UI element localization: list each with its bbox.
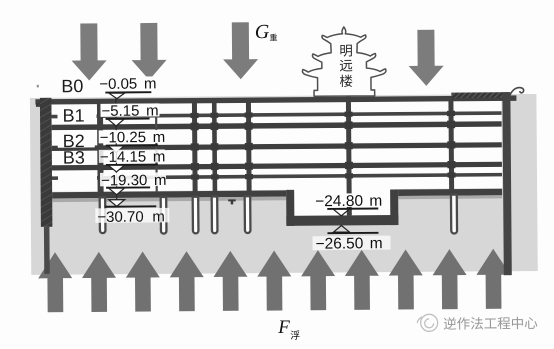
elevation -30.70 <box>109 200 125 207</box>
svg-text:−24.80 m: −24.80 m <box>315 193 382 211</box>
base slab left <box>52 190 286 198</box>
pit step wall left <box>286 190 294 226</box>
pit step wall right <box>390 190 398 226</box>
svg-text:−14.15 m: −14.15 m <box>100 148 166 166</box>
slab edge curl <box>509 88 524 99</box>
left wall toe <box>44 227 50 274</box>
pile 5 <box>245 196 251 233</box>
right diaphragm wall <box>502 92 511 275</box>
deep pit interior <box>294 188 390 216</box>
pile 1 <box>100 197 106 233</box>
load arrow 3 <box>223 22 258 79</box>
pile 4 <box>212 196 218 233</box>
column 5 under tower <box>346 87 352 215</box>
svg-text:B1: B1 <box>62 106 84 126</box>
base slab right lower tone <box>398 195 502 199</box>
marker on base slab <box>228 199 236 204</box>
svg-text:B0: B0 <box>61 76 83 96</box>
elevation -10.25 <box>99 130 165 144</box>
svg-text:−10.25 m: −10.25 m <box>100 129 166 147</box>
label B1 box <box>57 106 94 124</box>
slab B2 <box>52 142 502 151</box>
wall stub strut 1 <box>52 115 58 119</box>
strut level 2 <box>97 173 502 180</box>
load arrow 1 <box>71 23 106 80</box>
column 6 <box>448 100 454 190</box>
pile 6 <box>451 195 457 234</box>
level leader line <box>115 92 118 202</box>
elevation -5.15 <box>100 103 159 116</box>
svg-text:B3: B3 <box>63 148 85 168</box>
slab B1 <box>52 121 502 130</box>
basement excavation interior <box>51 100 502 192</box>
column 3 <box>212 101 217 191</box>
svg-text:远: 远 <box>339 58 353 73</box>
wall stub strut 2 <box>52 176 58 180</box>
label B2 box <box>58 132 95 147</box>
svg-text:F: F <box>277 317 290 338</box>
load arrow 4 <box>408 30 443 86</box>
pagoda tower outline <box>302 27 386 97</box>
elevation -26.50 <box>333 225 349 232</box>
pile 3 <box>193 197 199 234</box>
elevation -19.30 <box>100 172 166 186</box>
base slab left lower tone <box>52 197 286 202</box>
thin column line <box>155 102 158 192</box>
svg-text:−0.05 m: −0.05 m <box>99 75 156 92</box>
elevation -0.05 <box>98 76 158 89</box>
svg-text:明: 明 <box>339 43 353 58</box>
label B3 box <box>58 151 95 164</box>
column joints <box>191 111 456 180</box>
svg-text:逆作法工程中心: 逆作法工程中心 <box>443 316 538 332</box>
svg-text:重: 重 <box>269 32 277 42</box>
top slab B0 <box>35 95 516 104</box>
svg-text:−5.15 m: −5.15 m <box>101 102 158 119</box>
svg-text:G: G <box>255 21 270 43</box>
svg-text:楼: 楼 <box>339 74 353 89</box>
column 1 <box>97 102 104 192</box>
faint dot <box>37 85 39 88</box>
column 2 <box>192 102 198 192</box>
left diaphragm wall <box>40 98 53 227</box>
strut level 1 <box>97 111 502 118</box>
survey dot <box>36 103 40 107</box>
base slab right <box>398 189 502 196</box>
svg-text:−30.70 m: −30.70 m <box>97 208 165 226</box>
svg-text:−26.50 m: −26.50 m <box>315 235 382 253</box>
buoyancy arrows <box>38 249 511 313</box>
pit bottom slab <box>286 215 398 226</box>
elevation -24.80 <box>313 193 388 207</box>
watermark logo <box>417 314 438 331</box>
pile 2 <box>161 197 167 234</box>
capping beam hatched <box>451 92 509 98</box>
svg-text:浮: 浮 <box>290 330 300 342</box>
slab B3 <box>52 162 502 171</box>
column 4 <box>246 101 252 191</box>
load arrow 2 <box>131 23 166 80</box>
elevation -14.15 <box>99 149 165 163</box>
soil body <box>30 94 538 275</box>
